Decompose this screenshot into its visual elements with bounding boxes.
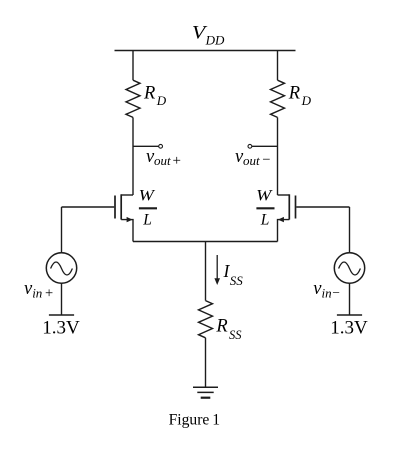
svg-text:DD: DD [205,33,225,48]
svg-text:out: out [243,153,260,168]
transistor Q2 channel bar [288,194,290,219]
source Vin- circle [334,253,364,283]
svg-text:1.3V: 1.3V [42,317,80,338]
svg-text:+: + [173,153,181,169]
ground [193,387,218,398]
wire vin+ vertical [61,207,63,253]
wire left drain vertical [132,117,134,195]
wire right drain vertical [277,117,279,195]
svg-text:R: R [143,83,155,103]
svg-text:+: + [45,286,53,302]
transistor Q2 source lead [278,220,290,242]
wire vout- stub [252,145,278,147]
transistor Q2 gate bar [295,196,297,219]
svg-text:D: D [301,93,312,108]
resistor RD (right) [271,80,285,117]
svg-text:−: − [262,152,270,168]
svg-text:SS: SS [230,273,244,288]
transistor Q1 source lead [121,220,133,242]
node vout+ terminal [159,144,163,148]
svg-text:W: W [139,188,157,205]
svg-text:in: in [322,286,332,301]
node 1.3V terminal (right) [337,314,362,316]
current arrow ISS [216,255,218,280]
node vout- terminal [248,144,252,148]
svg-text:L: L [142,211,152,228]
svg-text:W: W [256,188,274,205]
svg-text:Figure: Figure [169,411,210,428]
resistor RSS [199,301,213,338]
wire vin- to 1.3V [349,283,351,315]
transistor Q1 gate bar [114,196,116,219]
svg-text:−: − [332,285,340,300]
svg-text:1: 1 [212,411,220,428]
wire vout+ stub [133,145,159,147]
wire source bus [133,241,278,243]
transistor Q2 source arrow [278,217,284,222]
wire tail down [205,242,207,301]
source Vin+ circle [46,253,76,283]
wire Q1 gate [62,206,115,208]
transistor Q2 drain lead [278,194,290,196]
source Vin- sine [339,262,361,275]
wire to ground [205,338,207,387]
svg-text:R: R [288,83,300,103]
resistor RD (left) [126,80,140,117]
wire left drain branch top [132,51,134,81]
transistor Q1 drain lead [121,194,133,196]
wire vin- vertical [349,207,351,253]
svg-text:SS: SS [229,328,242,342]
wire Q2 gate [296,206,349,208]
wire vin+ to 1.3V [61,283,63,315]
transistor Q1 channel bar [120,194,122,219]
node 1.3V terminal (left) [49,314,74,316]
svg-text:D: D [156,93,167,108]
svg-text:in: in [32,286,42,301]
svg-text:out: out [154,153,171,168]
svg-text:R: R [215,316,227,336]
svg-text:1.3V: 1.3V [330,317,368,338]
source Vin+ sine [51,262,73,275]
transistor Q1 source arrow [127,217,133,222]
svg-text:L: L [260,211,270,228]
wire right drain branch top [277,51,279,81]
wire VDD rail [115,50,296,52]
